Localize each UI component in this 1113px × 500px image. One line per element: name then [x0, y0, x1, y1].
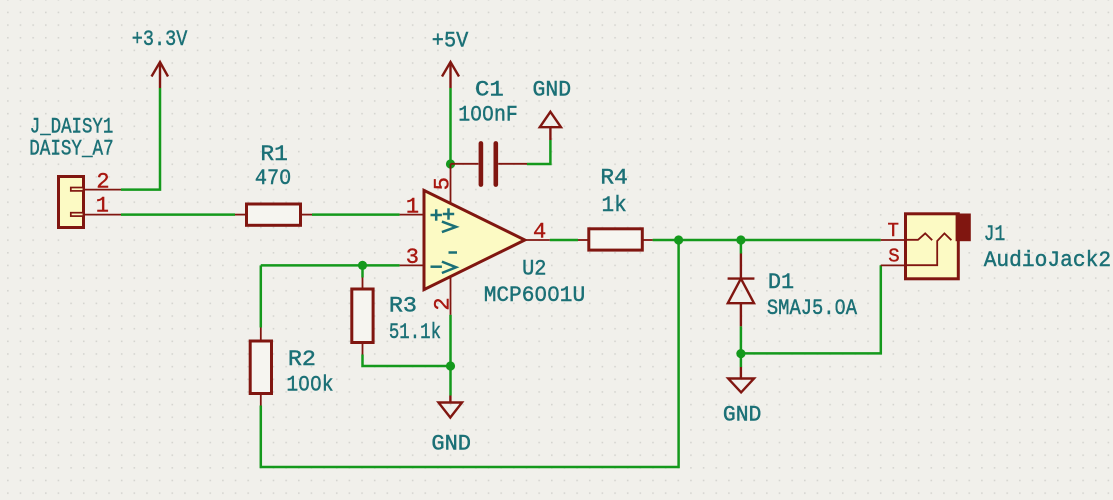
svg-text:MCP6001U: MCP6001U — [484, 282, 586, 308]
svg-text:2: 2 — [430, 297, 455, 310]
svg-text:100k: 100k — [286, 371, 333, 397]
svg-text:GND: GND — [431, 430, 471, 456]
svg-text:1: 1 — [96, 194, 109, 219]
svg-text:T: T — [888, 220, 899, 242]
svg-text:R2: R2 — [288, 346, 316, 372]
svg-text:+3.3V: +3.3V — [132, 26, 188, 52]
svg-text:S: S — [888, 245, 899, 267]
svg-text:D1: D1 — [768, 269, 794, 295]
svg-text:C1: C1 — [475, 76, 504, 102]
svg-text:4: 4 — [533, 219, 546, 244]
svg-text:5: 5 — [430, 177, 455, 190]
svg-text:51.1k: 51.1k — [389, 319, 441, 345]
svg-text:U2: U2 — [522, 256, 546, 282]
svg-text:AudioJack2: AudioJack2 — [984, 247, 1111, 273]
svg-text:SMAJ5.0A: SMAJ5.0A — [767, 295, 858, 321]
svg-text:3: 3 — [406, 245, 419, 270]
svg-text:DAISY_A7: DAISY_A7 — [29, 135, 114, 161]
svg-text:+5V: +5V — [432, 27, 469, 53]
svg-text:R1: R1 — [260, 141, 288, 167]
svg-text:GND: GND — [533, 77, 572, 103]
svg-text:J1: J1 — [984, 221, 1006, 247]
svg-text:2: 2 — [96, 169, 109, 194]
svg-text:1k: 1k — [602, 192, 627, 218]
svg-text:R4: R4 — [600, 165, 627, 191]
svg-text:GND: GND — [723, 402, 762, 428]
svg-text:R3: R3 — [389, 293, 417, 319]
svg-text:1: 1 — [406, 194, 419, 219]
